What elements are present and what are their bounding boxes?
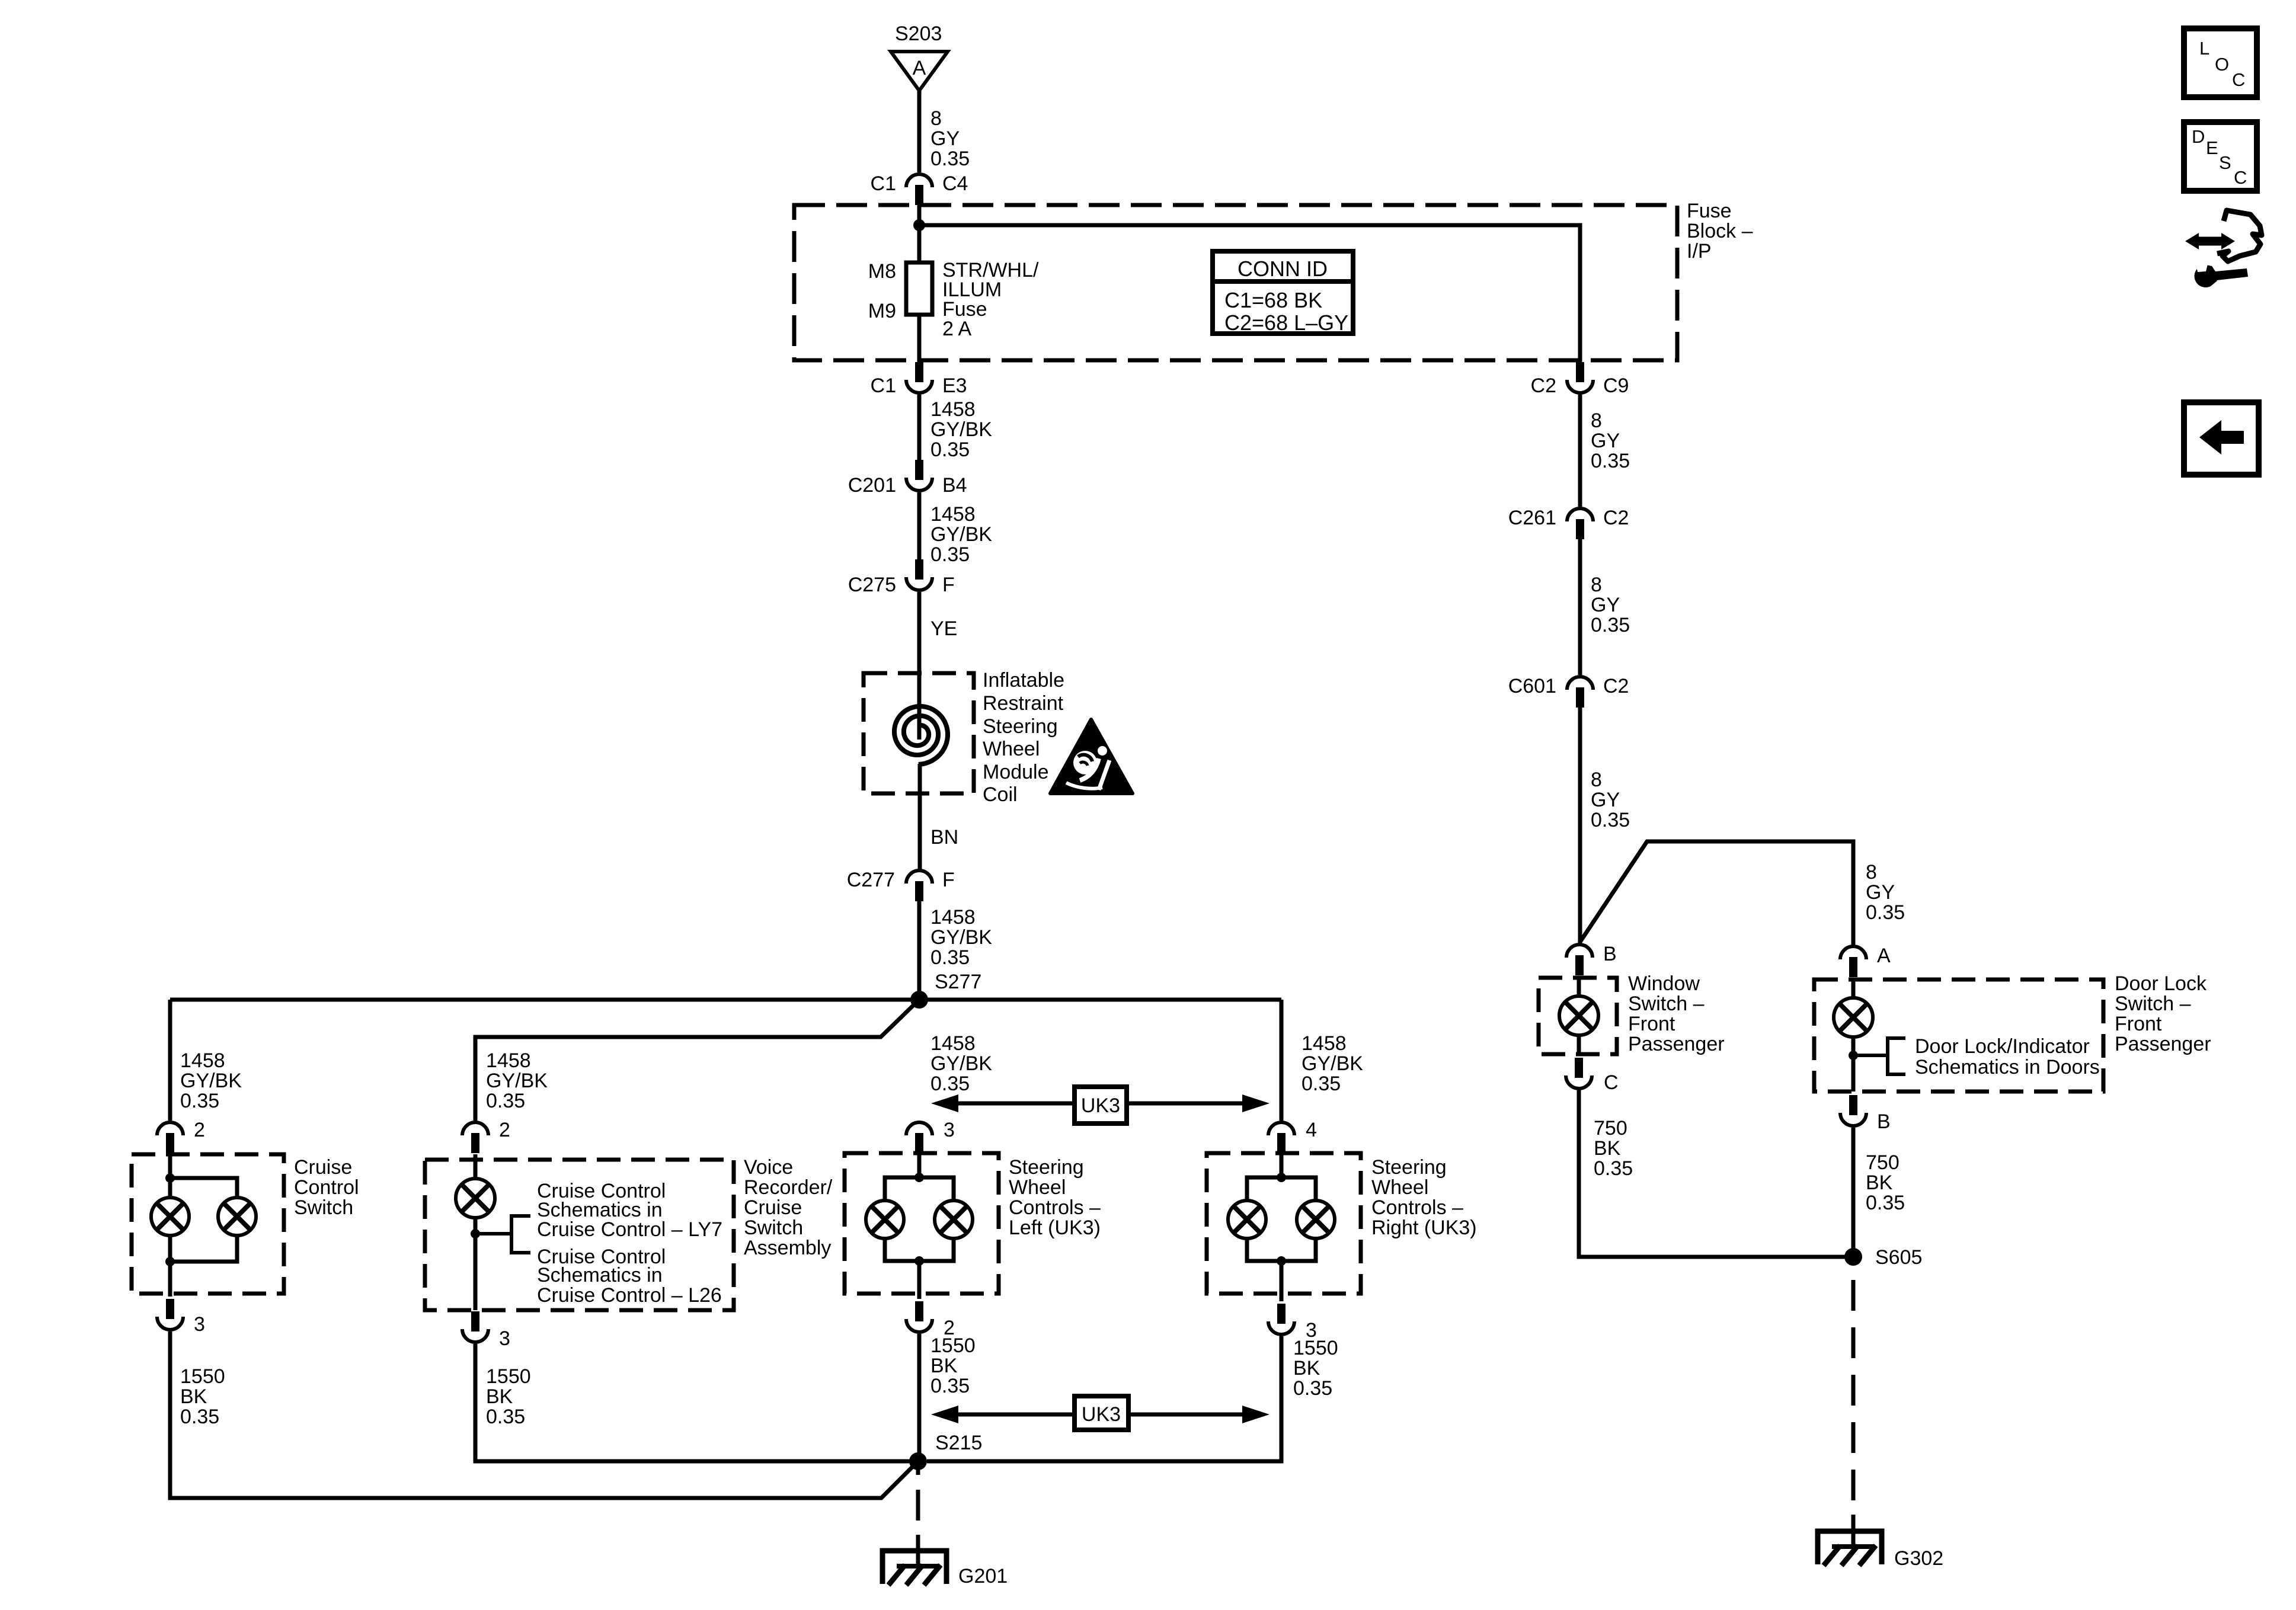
svg-text:UK3: UK3 xyxy=(1081,1094,1120,1117)
icon: back arrow box xyxy=(2184,402,2259,475)
wire: door to S605 xyxy=(1851,1128,1856,1257)
ground G201 xyxy=(882,1551,946,1585)
label: wire 1550 BK 0.35 (steer-left) xyxy=(930,1334,976,1397)
label: S605 xyxy=(1875,1246,1922,1269)
svg-text:A: A xyxy=(1877,945,1891,967)
inflatable restraint coil (spiral) xyxy=(894,706,948,764)
label: wire 8 GY 0.35 (c) xyxy=(1591,769,1630,831)
svg-text:GY: GY xyxy=(1591,789,1620,811)
wire: window to S605 xyxy=(1579,1090,1853,1257)
label: fuse name xyxy=(942,259,1039,340)
svg-text:0.35: 0.35 xyxy=(930,438,970,461)
svg-text:4: 4 xyxy=(1306,1119,1317,1141)
wire: S203 to C1/C4 xyxy=(917,91,922,172)
svg-text:8: 8 xyxy=(1591,769,1602,791)
svg-text:1550: 1550 xyxy=(1293,1337,1338,1359)
svg-text:0.35: 0.35 xyxy=(930,1073,970,1095)
wire: voice to S215 xyxy=(475,1344,910,1461)
connector 3 (steer-right) xyxy=(1268,1304,1317,1342)
splice S277 dot xyxy=(910,991,928,1009)
label: fuse pins M8 M9 xyxy=(868,260,896,322)
svg-text:YE: YE xyxy=(930,617,957,640)
svg-text:BN: BN xyxy=(930,826,958,849)
wire: window internal xyxy=(1577,978,1581,1054)
svg-text:Cruise Control – LY7: Cruise Control – LY7 xyxy=(537,1218,722,1241)
svg-text:BK: BK xyxy=(1594,1137,1621,1160)
svg-text:E: E xyxy=(2206,137,2218,158)
label: Cruise Control Switch xyxy=(294,1156,359,1219)
svg-text:0.35: 0.35 xyxy=(1591,614,1630,636)
steering wheel controls right dashed box xyxy=(1207,1153,1361,1294)
svg-text:Window: Window xyxy=(1628,972,1700,995)
svg-text:Control: Control xyxy=(294,1176,359,1199)
lamp steer-left A xyxy=(866,1201,904,1238)
connector 2 (cruise) xyxy=(157,1119,205,1153)
connector 4 (steer-right) xyxy=(1268,1119,1317,1153)
junction dot cruise bottom xyxy=(165,1257,175,1266)
steer-left lamp loop xyxy=(885,1177,954,1261)
svg-text:1458: 1458 xyxy=(486,1049,531,1072)
svg-text:Passenger: Passenger xyxy=(2115,1033,2211,1055)
splice symbol S203 (triangle A) xyxy=(891,52,948,91)
svg-text:Front: Front xyxy=(1628,1013,1675,1035)
svg-text:BK: BK xyxy=(486,1385,513,1408)
svg-text:0.35: 0.35 xyxy=(1293,1377,1332,1400)
UK3 option arrow (bottom) xyxy=(931,1396,1269,1430)
label: Door Lock Switch - Front Passenger xyxy=(2115,972,2211,1055)
svg-text:F: F xyxy=(942,574,955,596)
lamp cruise right xyxy=(218,1198,256,1235)
wire: C275 to coil (YE) xyxy=(917,592,922,740)
svg-text:C9: C9 xyxy=(1603,375,1629,397)
svg-text:Wheel: Wheel xyxy=(983,738,1040,760)
svg-text:Front: Front xyxy=(2115,1013,2162,1035)
svg-text:O: O xyxy=(2215,54,2229,75)
label: wire 1458 GY/BK 0.35 (b) xyxy=(930,503,992,566)
svg-text:3: 3 xyxy=(194,1313,205,1336)
svg-text:Recorder/: Recorder/ xyxy=(744,1176,833,1199)
label: branch 1458 GY/BK 0.35 (voice) xyxy=(486,1049,548,1112)
label: wire 8 GY 0.35 (a) xyxy=(1591,409,1630,472)
label: wire 8 GY 0.35 (b) xyxy=(1591,574,1630,636)
wire: C601 to window switch xyxy=(1578,708,1582,943)
svg-text:0.35: 0.35 xyxy=(1302,1073,1341,1095)
svg-text:3: 3 xyxy=(499,1327,510,1350)
UK3 option arrow (top) xyxy=(931,1087,1269,1124)
junction dot in fuse block xyxy=(913,219,925,231)
wire: C1/C4 into fuse block xyxy=(917,205,922,263)
svg-text:GY/BK: GY/BK xyxy=(1302,1052,1363,1075)
junction dot cruise top xyxy=(165,1173,175,1183)
label: Window Switch - Front Passenger xyxy=(1628,972,1725,1055)
steering wheel controls left dashed box xyxy=(845,1153,999,1294)
svg-text:Schematics in Doors: Schematics in Doors xyxy=(1915,1056,2100,1078)
wire: door internal xyxy=(1851,980,1856,1092)
svg-text:UK3: UK3 xyxy=(1082,1403,1121,1426)
lamp steer-left B xyxy=(935,1201,973,1238)
svg-text:Coil: Coil xyxy=(983,783,1018,806)
svg-text:C261: C261 xyxy=(1508,507,1556,529)
svg-text:Steering: Steering xyxy=(1371,1156,1447,1179)
wire: steering-right drop xyxy=(1280,1000,1284,1121)
svg-text:1458: 1458 xyxy=(930,398,976,421)
splice S277 label xyxy=(935,971,981,993)
lamp voice xyxy=(456,1179,495,1218)
svg-text:C2: C2 xyxy=(1531,375,1556,397)
svg-text:0.35: 0.35 xyxy=(1594,1157,1633,1180)
cruise lamp loop xyxy=(170,1178,237,1262)
svg-text:Cruise: Cruise xyxy=(744,1196,802,1219)
wire: steer-right to S215 bus xyxy=(927,1336,1281,1461)
svg-text:C1=68 BK: C1=68 BK xyxy=(1224,288,1322,312)
svg-text:Controls –: Controls – xyxy=(1009,1196,1101,1219)
wire: S277 diagonal to voice branch xyxy=(475,1000,919,1121)
wire: C2/C9 to C261 xyxy=(1578,395,1582,507)
svg-text:GY/BK: GY/BK xyxy=(930,1052,992,1075)
svg-text:Wheel: Wheel xyxy=(1371,1176,1428,1199)
svg-text:Module: Module xyxy=(983,761,1049,783)
junction dot door xyxy=(1849,1051,1858,1060)
wire: S277 bus left+right xyxy=(170,998,1281,1002)
splice S203 label xyxy=(895,23,942,45)
svg-text:1458: 1458 xyxy=(1302,1032,1347,1055)
svg-text:8: 8 xyxy=(1866,861,1877,884)
svg-text:C275: C275 xyxy=(848,574,896,596)
wire: cruise internal bottom xyxy=(168,1235,172,1297)
svg-text:C4: C4 xyxy=(942,172,968,195)
connector C275/F xyxy=(848,559,955,596)
wire: S215 ground lead (dashed) xyxy=(916,1461,920,1568)
svg-text:0.35: 0.35 xyxy=(1866,1192,1905,1214)
connector C201/B4 xyxy=(848,460,967,497)
svg-text:C201: C201 xyxy=(848,474,896,497)
svg-text:Restraint: Restraint xyxy=(983,692,1064,715)
svg-text:C2: C2 xyxy=(1603,675,1629,697)
wire: branch to door lock switch xyxy=(1579,841,1853,945)
label: Fuse Block - I/P xyxy=(1687,200,1753,263)
svg-text:Steering: Steering xyxy=(983,715,1058,738)
svg-text:E3: E3 xyxy=(942,375,967,397)
label: G201 xyxy=(958,1565,1008,1587)
label: wire 750 BK 0.35 (door) xyxy=(1866,1151,1905,1214)
svg-text:B: B xyxy=(1877,1110,1891,1133)
label: Cruise Control Schematics refs xyxy=(537,1180,722,1307)
svg-text:C: C xyxy=(2232,69,2245,90)
svg-text:0.35: 0.35 xyxy=(180,1090,219,1112)
svg-text:Switch: Switch xyxy=(744,1217,803,1239)
svg-text:0.35: 0.35 xyxy=(1591,450,1630,472)
svg-text:BK: BK xyxy=(1293,1357,1320,1379)
connector C (window) xyxy=(1566,1058,1619,1094)
connector A (door) xyxy=(1840,945,1891,977)
label: branch 1458 GY/BK 0.35 (cruise) xyxy=(180,1049,242,1112)
svg-text:Voice: Voice xyxy=(744,1156,793,1179)
wire: steer-left internal top xyxy=(917,1154,922,1177)
svg-text:1458: 1458 xyxy=(180,1049,225,1072)
door lock switch dashed box xyxy=(1814,980,2103,1092)
cruise control switch dashed box xyxy=(132,1154,284,1294)
svg-text:Inflatable: Inflatable xyxy=(983,669,1064,692)
svg-text:L: L xyxy=(2199,38,2209,59)
svg-text:1550: 1550 xyxy=(180,1365,225,1388)
wire: cruise drop xyxy=(168,1000,172,1121)
svg-text:S605: S605 xyxy=(1875,1246,1922,1269)
connector 2 (steer-left) xyxy=(906,1301,955,1339)
connector C1/E3 xyxy=(871,362,967,397)
CONN ID table xyxy=(1213,251,1353,335)
wire: cruise to S215 xyxy=(170,1331,918,1498)
svg-text:C1: C1 xyxy=(871,172,896,195)
svg-text:BK: BK xyxy=(1866,1172,1893,1194)
connector C1/C4 xyxy=(871,172,968,205)
svg-text:0.35: 0.35 xyxy=(486,1090,525,1112)
steer-right lamp loop xyxy=(1247,1177,1316,1261)
connector C277/F xyxy=(847,869,955,901)
svg-text:D: D xyxy=(2192,126,2205,147)
svg-text:Controls –: Controls – xyxy=(1371,1196,1463,1219)
svg-text:Switch: Switch xyxy=(294,1196,353,1219)
svg-text:Door Lock: Door Lock xyxy=(2115,972,2207,995)
wire: C1/E3 to C201 xyxy=(917,395,922,460)
svg-text:GY/BK: GY/BK xyxy=(930,926,992,949)
svg-text:Schematics in: Schematics in xyxy=(537,1264,663,1286)
junction dot steer-right top xyxy=(1277,1173,1286,1182)
junction dot voice xyxy=(471,1229,480,1238)
svg-text:Switch –: Switch – xyxy=(2115,993,2191,1015)
svg-text:750: 750 xyxy=(1866,1151,1900,1174)
label: Voice Recorder/Cruise Switch Assembly xyxy=(744,1156,833,1259)
wire: steer-right internal bottom xyxy=(1280,1261,1284,1301)
svg-text:Block –: Block – xyxy=(1687,220,1753,242)
svg-text:3: 3 xyxy=(944,1119,955,1141)
label: wire 1458 GY/BK 0.35 (c) xyxy=(930,906,992,969)
label: wire 8 GY 0.35 (d) xyxy=(1866,861,1905,924)
label: wire 1550 BK 0.35 (cruise) xyxy=(180,1365,225,1428)
svg-text:F: F xyxy=(942,869,955,891)
wire: fuse block bus to C2 drop xyxy=(919,225,1580,362)
ground G302 xyxy=(1818,1531,1882,1566)
wire: steer-left to S215 xyxy=(917,1334,922,1461)
warning icon (airbag caution triangle) xyxy=(1050,719,1133,793)
svg-text:GY: GY xyxy=(1866,881,1895,904)
svg-text:G302: G302 xyxy=(1894,1547,1943,1570)
junction dot steer-left bottom xyxy=(914,1256,924,1266)
svg-text:Passenger: Passenger xyxy=(1628,1033,1725,1055)
svg-text:0.35: 0.35 xyxy=(1866,901,1905,924)
junction dot steer-left top xyxy=(914,1173,924,1182)
connector B (window) xyxy=(1566,943,1617,975)
svg-text:0.35: 0.35 xyxy=(930,1375,970,1397)
svg-text:A: A xyxy=(913,57,926,79)
wire: C261 to C601 xyxy=(1578,539,1582,675)
label: wire BN xyxy=(930,826,958,849)
splice S215 dot xyxy=(909,1452,927,1470)
lamp steer-right A xyxy=(1228,1201,1266,1238)
window switch dashed box xyxy=(1539,978,1617,1054)
label: wire 750 BK 0.35 (window) xyxy=(1594,1117,1633,1180)
fork to door lock/indicator references xyxy=(1853,1038,1905,1074)
svg-text:G201: G201 xyxy=(958,1565,1008,1587)
wire: coil to C277 (BN) xyxy=(918,764,922,869)
label: Steering Wheel Controls - Right (UK3) xyxy=(1371,1156,1477,1239)
svg-text:BK: BK xyxy=(930,1355,958,1377)
svg-text:BK: BK xyxy=(180,1385,207,1408)
voice recorder dashed box xyxy=(425,1160,734,1310)
connector 3 (cruise) xyxy=(157,1299,205,1336)
svg-text:1458: 1458 xyxy=(930,503,976,526)
icon: LOC box xyxy=(2184,28,2257,97)
label: branch 1458 GY/BK 0.35 (steer-right) xyxy=(1302,1032,1363,1095)
connector 2 (voice) xyxy=(462,1119,510,1153)
svg-text:0.35: 0.35 xyxy=(930,543,970,566)
label: wire 8 GY 0.35 xyxy=(930,107,970,170)
svg-text:0.35: 0.35 xyxy=(486,1406,525,1428)
svg-text:Steering: Steering xyxy=(1009,1156,1084,1179)
svg-text:GY: GY xyxy=(1591,430,1620,452)
connector 3 (steer-left) xyxy=(906,1119,955,1153)
svg-text:2 A: 2 A xyxy=(942,318,971,340)
svg-text:1550: 1550 xyxy=(930,1334,976,1357)
lamp steer-right B xyxy=(1297,1201,1335,1238)
svg-text:B4: B4 xyxy=(942,474,967,497)
svg-text:2: 2 xyxy=(194,1119,205,1141)
wire: voice internal xyxy=(474,1154,478,1310)
svg-text:GY/BK: GY/BK xyxy=(180,1070,242,1092)
svg-text:Cruise Control – L26: Cruise Control – L26 xyxy=(537,1284,722,1307)
svg-text:0.35: 0.35 xyxy=(930,148,970,170)
svg-text:8: 8 xyxy=(930,107,942,130)
label: wire 1550 BK 0.35 (steer-right) xyxy=(1293,1337,1338,1400)
label: wire 1458 GY/BK 0.35 (a) xyxy=(930,398,992,461)
svg-text:GY/BK: GY/BK xyxy=(930,418,992,441)
svg-text:0.35: 0.35 xyxy=(180,1406,219,1428)
junction dot steer-right bottom xyxy=(1277,1256,1286,1266)
svg-text:S203: S203 xyxy=(895,23,942,45)
icon: DESC box xyxy=(2184,122,2257,191)
label: branch 1458 GY/BK 0.35 (steer-left) xyxy=(930,1032,992,1095)
svg-text:C2=68 L–GY: C2=68 L–GY xyxy=(1224,311,1348,335)
svg-text:C601: C601 xyxy=(1508,675,1556,697)
lamp window xyxy=(1559,996,1598,1035)
connector 3 (voice) xyxy=(462,1311,510,1350)
svg-text:CONN ID: CONN ID xyxy=(1237,257,1328,281)
svg-text:Cruise: Cruise xyxy=(294,1156,352,1179)
connector C261/C2 xyxy=(1508,507,1629,539)
svg-text:S215: S215 xyxy=(935,1432,982,1454)
svg-text:Wheel: Wheel xyxy=(1009,1176,1066,1199)
svg-text:I/P: I/P xyxy=(1687,240,1712,263)
svg-text:M8: M8 xyxy=(868,260,896,283)
svg-text:Door Lock/Indicator: Door Lock/Indicator xyxy=(1915,1035,2090,1058)
wire: S605 ground lead (dashed) xyxy=(1851,1280,1856,1548)
svg-text:C: C xyxy=(2234,167,2247,188)
connector B (door bottom) xyxy=(1840,1095,1891,1133)
svg-text:S: S xyxy=(2219,152,2231,173)
svg-text:C2: C2 xyxy=(1603,507,1629,529)
label: Inflatable Restraint Steering Wheel Module Coil xyxy=(983,669,1064,806)
lamp door xyxy=(1834,998,1873,1037)
label: Steering Wheel Controls - Left (UK3) xyxy=(1009,1156,1101,1239)
svg-text:GY: GY xyxy=(930,127,960,150)
svg-text:1458: 1458 xyxy=(930,906,976,929)
label: Door Lock/Indicator Schematics in Doors xyxy=(1915,1035,2100,1078)
svg-text:B: B xyxy=(1603,943,1617,965)
wire: C277 to S277 xyxy=(917,901,922,1000)
icon: diagnostic arrow-wrench xyxy=(2185,210,2262,287)
svg-text:2: 2 xyxy=(499,1119,510,1141)
svg-text:1550: 1550 xyxy=(486,1365,531,1388)
splice S215 label xyxy=(935,1432,982,1454)
connector C2/C9 xyxy=(1531,362,1629,397)
label: G302 xyxy=(1894,1547,1943,1570)
svg-text:Switch –: Switch – xyxy=(1628,993,1705,1015)
svg-text:C: C xyxy=(1604,1071,1619,1094)
svg-text:0.35: 0.35 xyxy=(930,946,970,969)
wire: steer-left internal bottom xyxy=(917,1261,922,1299)
svg-text:Fuse: Fuse xyxy=(1687,200,1732,222)
svg-text:S277: S277 xyxy=(935,971,981,993)
svg-text:Assembly: Assembly xyxy=(744,1237,831,1259)
wire: cruise internal top xyxy=(168,1154,172,1198)
label: wire 1550 BK 0.35 (voice) xyxy=(486,1365,531,1428)
splice S605 dot xyxy=(1844,1248,1862,1266)
lamp cruise left xyxy=(151,1198,189,1235)
svg-text:M9: M9 xyxy=(868,300,896,322)
svg-text:8: 8 xyxy=(1591,574,1602,596)
wire: fuse to C1/E3 xyxy=(917,315,922,363)
svg-text:GY/BK: GY/BK xyxy=(486,1070,548,1092)
svg-text:750: 750 xyxy=(1594,1117,1627,1140)
fuse M8/M9 STR/WHL/ILLUM 2A xyxy=(906,263,932,315)
coil module dashed box xyxy=(864,673,974,793)
svg-text:C277: C277 xyxy=(847,869,895,891)
fork to cruise control references xyxy=(475,1216,530,1253)
svg-text:1458: 1458 xyxy=(930,1032,976,1055)
svg-text:0.35: 0.35 xyxy=(1591,809,1630,831)
svg-text:GY/BK: GY/BK xyxy=(930,523,992,546)
svg-text:C1: C1 xyxy=(871,375,896,397)
svg-text:Left (UK3): Left (UK3) xyxy=(1009,1217,1101,1239)
connector C601/C2 xyxy=(1508,675,1629,708)
label: wire YE xyxy=(930,617,957,640)
wire: steer-right internal top xyxy=(1280,1154,1284,1177)
svg-text:Right (UK3): Right (UK3) xyxy=(1371,1217,1477,1239)
svg-text:GY: GY xyxy=(1591,594,1620,616)
fuse block I/P dashed box xyxy=(794,205,1677,360)
wire: C201 to C275 xyxy=(917,492,922,560)
svg-text:8: 8 xyxy=(1591,409,1602,432)
